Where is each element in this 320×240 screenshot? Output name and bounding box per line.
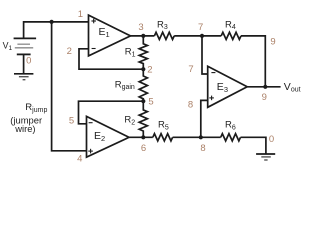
resistor R3 zigzag (node3 to node7) xyxy=(154,32,174,39)
svg-text:0: 0 xyxy=(26,55,31,66)
op-amp E2 triangle xyxy=(87,116,130,157)
junction node 8 xyxy=(199,135,203,139)
wire E2 output to node6 and bottom rail to R5 xyxy=(129,136,153,138)
svg-text:2: 2 xyxy=(147,65,152,76)
resistor R2 zigzag (node5 to node6) xyxy=(139,101,147,137)
svg-text:8: 8 xyxy=(200,143,205,154)
op-amp E1 minus marker xyxy=(92,48,96,50)
junction node 3 xyxy=(141,34,145,38)
junction node 1 xyxy=(50,20,54,24)
svg-text:6: 6 xyxy=(141,143,146,154)
resistor R4 zigzag (node7 to node9) xyxy=(221,32,241,39)
wire Rjump rail: node1 junction down to E2 + input xyxy=(52,22,87,151)
svg-text:7: 7 xyxy=(198,22,203,33)
junction node 5 xyxy=(141,99,145,103)
svg-text:1: 1 xyxy=(78,9,83,20)
wire E3 noninverting input down to node8 xyxy=(201,100,208,137)
svg-text:0: 0 xyxy=(269,134,274,145)
op-amp E2 plus marker xyxy=(88,149,93,154)
svg-text:8: 8 xyxy=(188,100,193,111)
resistor R6 zigzag (node8 to node0) xyxy=(221,134,241,141)
svg-text:3: 3 xyxy=(138,22,143,33)
wire node7 segment between R3 and R4 xyxy=(174,35,221,37)
wire node1 top: battery lead up and across to E1 + input xyxy=(24,22,89,39)
op-amp E3 minus marker xyxy=(211,72,215,74)
op-amp E3 triangle xyxy=(208,66,248,107)
op-amp E1 plus marker xyxy=(91,19,96,24)
resistor R1 zigzag (node3 to node2) xyxy=(139,36,147,69)
wire R6 to bottom-right corner down to ground xyxy=(241,137,266,154)
svg-text:5: 5 xyxy=(69,115,74,126)
battery V1 plates xyxy=(14,38,36,54)
svg-text:4: 4 xyxy=(77,154,82,165)
wire E1 output to node3 and top rail to R3 xyxy=(131,35,155,37)
svg-text:9: 9 xyxy=(262,92,267,103)
wire R4 to top-right corner down to node 9 xyxy=(241,36,265,87)
wire battery bottom lead to ground xyxy=(23,54,25,73)
resistor R5 zigzag (node6 to node8) xyxy=(153,134,173,141)
ground left (node 0) xyxy=(14,74,33,80)
wire E2 inverting input up to node 5 xyxy=(79,101,144,124)
wire node7 down to E3 inverting input xyxy=(202,36,208,74)
wire E3 output to Vout xyxy=(247,86,280,88)
wire node8 segment between R5 and R6 xyxy=(173,136,221,138)
junction node 9 xyxy=(263,85,267,89)
svg-text:5: 5 xyxy=(148,97,153,108)
wire E1 inverting input to node 2 xyxy=(79,49,143,69)
svg-text:wire): wire) xyxy=(14,123,35,134)
junction node 7 xyxy=(200,34,204,38)
junction node 6 xyxy=(141,135,145,139)
ground right (node 0) xyxy=(256,154,275,160)
op-amp E2 minus marker xyxy=(89,122,93,124)
op-amp E1 triangle xyxy=(89,15,131,56)
svg-text:2: 2 xyxy=(67,46,72,57)
resistor Rgain zigzag (node2 to node5) xyxy=(139,69,147,101)
svg-text:7: 7 xyxy=(188,64,193,75)
op-amp E3 plus marker xyxy=(209,96,214,101)
svg-text:9: 9 xyxy=(270,37,275,48)
junction node 2 xyxy=(141,67,145,71)
